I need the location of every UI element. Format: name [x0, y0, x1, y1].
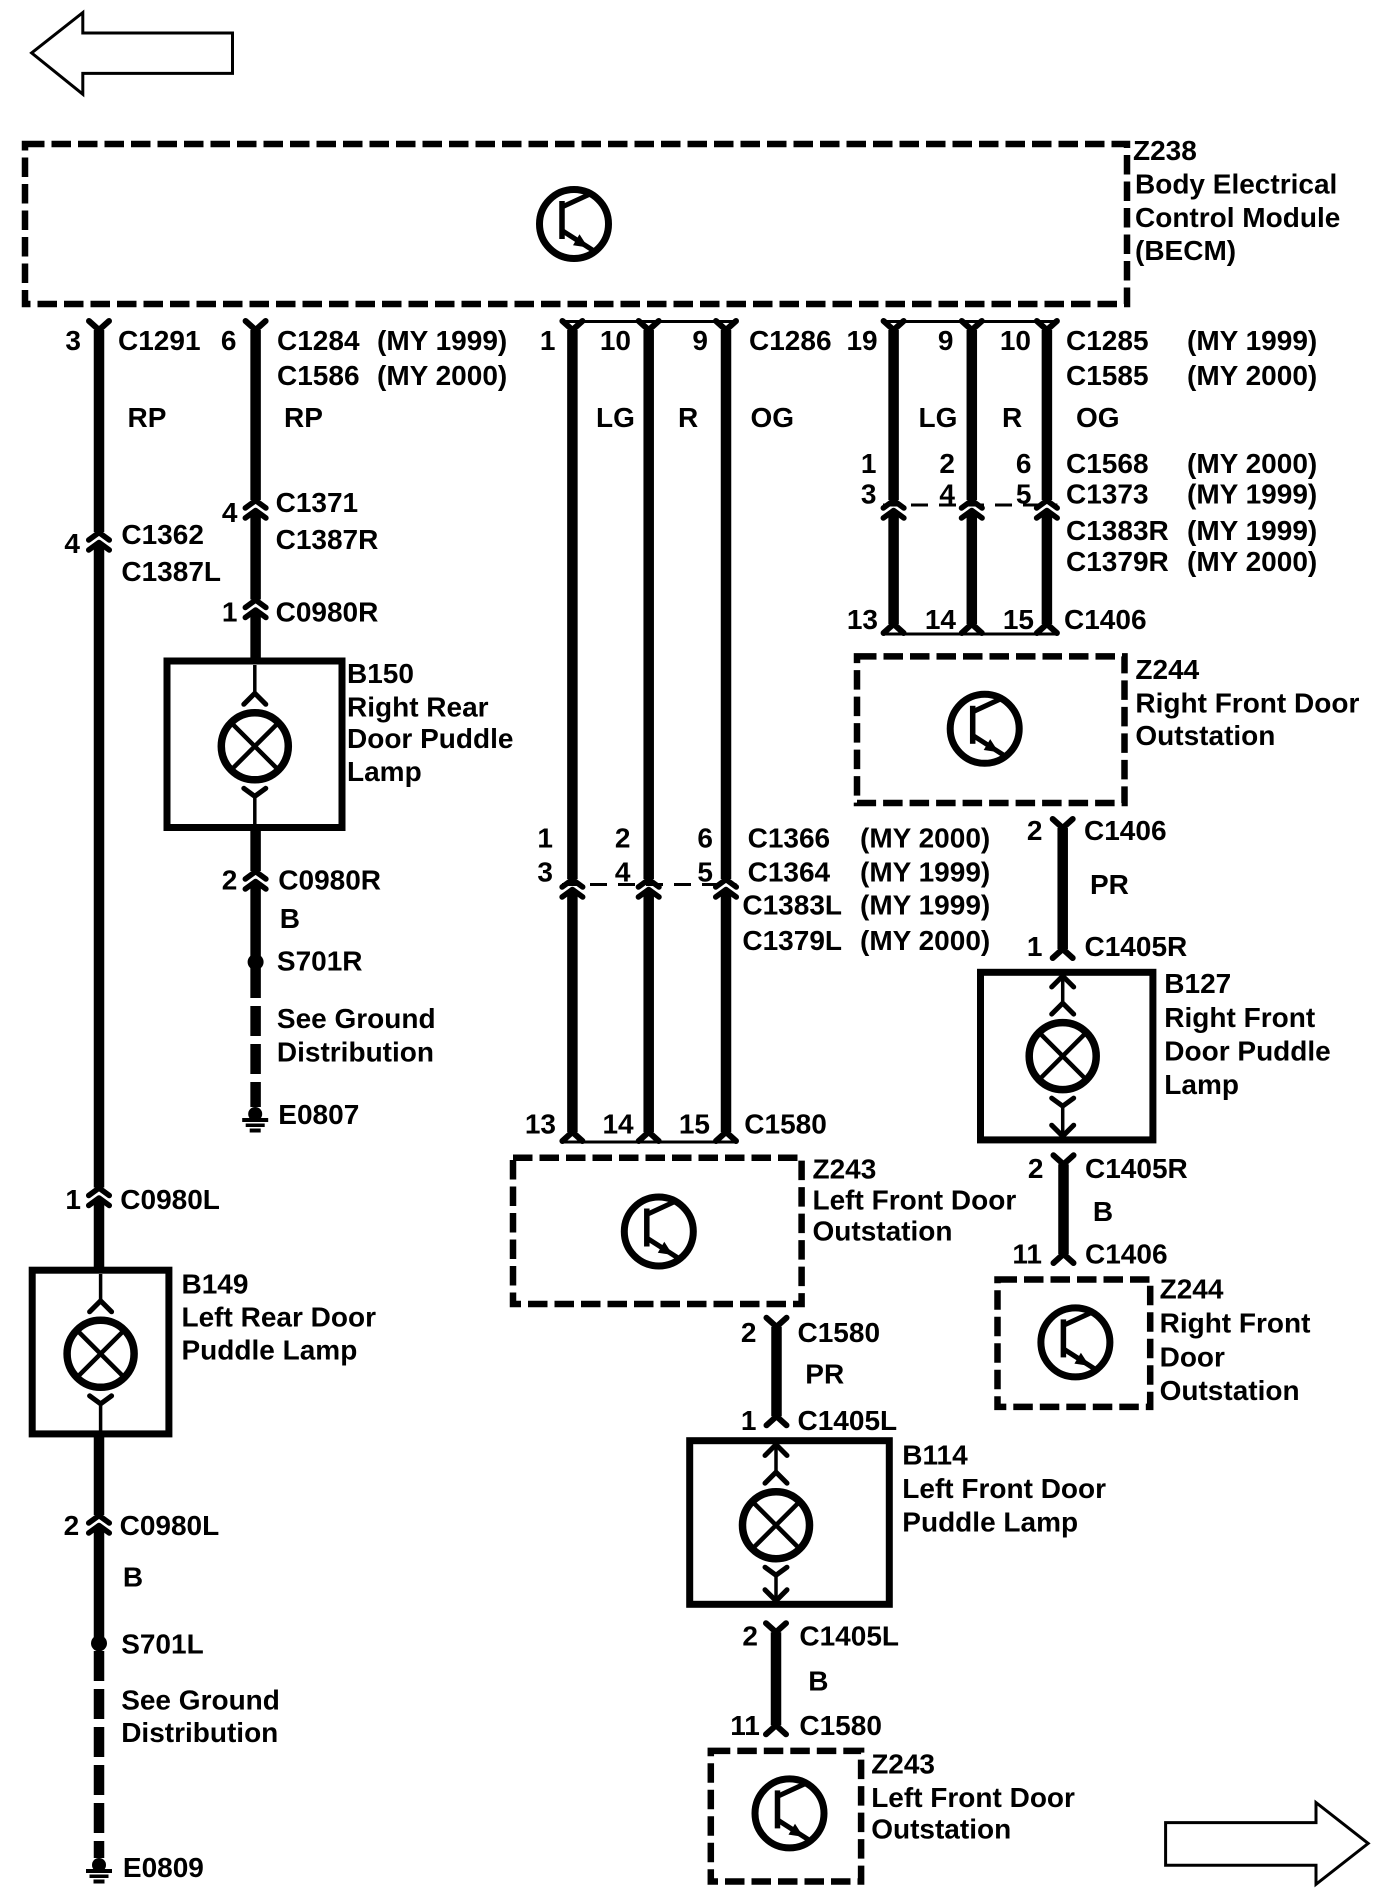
svg-text:E0809: E0809: [123, 1852, 204, 1883]
svg-text:6: 6: [697, 823, 713, 854]
svg-text:C0980L: C0980L: [120, 1510, 220, 1541]
svg-text:C1580: C1580: [798, 1317, 881, 1348]
svg-text:2: 2: [222, 865, 238, 896]
svg-text:19: 19: [846, 325, 877, 356]
svg-text:3: 3: [65, 325, 81, 356]
svg-text:Door Puddle: Door Puddle: [347, 723, 513, 754]
svg-text:2: 2: [1027, 815, 1043, 846]
svg-text:Body Electrical: Body Electrical: [1135, 169, 1337, 200]
svg-text:5: 5: [1016, 479, 1032, 510]
svg-text:OG: OG: [751, 402, 795, 433]
svg-text:Outstation: Outstation: [813, 1216, 953, 1247]
svg-text:2: 2: [939, 448, 955, 479]
svg-text:1: 1: [222, 597, 238, 628]
svg-text:(MY 1999): (MY 1999): [1187, 325, 1317, 356]
svg-text:Right Front: Right Front: [1164, 1002, 1315, 1033]
svg-text:C1387R: C1387R: [276, 524, 379, 555]
svg-text:C1364: C1364: [748, 857, 831, 888]
svg-text:B: B: [123, 1562, 143, 1593]
svg-text:(MY 1999): (MY 1999): [377, 325, 507, 356]
svg-text:C1405R: C1405R: [1085, 931, 1188, 962]
svg-text:B: B: [280, 903, 300, 934]
svg-text:Door: Door: [1160, 1342, 1225, 1373]
svg-text:13: 13: [847, 604, 878, 635]
svg-text:2: 2: [64, 1510, 80, 1541]
svg-text:10: 10: [1000, 325, 1031, 356]
svg-text:C1406: C1406: [1085, 1239, 1168, 1270]
svg-text:2: 2: [742, 1621, 758, 1652]
svg-text:Distribution: Distribution: [277, 1037, 434, 1068]
svg-text:(MY 2000): (MY 2000): [1187, 360, 1317, 391]
svg-text:B114: B114: [902, 1440, 968, 1471]
svg-text:(MY 1999): (MY 1999): [1187, 515, 1317, 546]
svg-text:Z238: Z238: [1133, 135, 1197, 166]
svg-text:S701L: S701L: [121, 1629, 204, 1660]
svg-text:Z243: Z243: [813, 1154, 877, 1185]
svg-text:PR: PR: [1090, 869, 1129, 900]
svg-text:B149: B149: [182, 1269, 249, 1300]
svg-text:6: 6: [1016, 448, 1032, 479]
svg-text:C1387L: C1387L: [121, 556, 221, 587]
svg-text:1: 1: [65, 1184, 81, 1215]
svg-text:C1568: C1568: [1066, 448, 1149, 479]
svg-text:14: 14: [602, 1109, 634, 1140]
svg-text:Door Puddle: Door Puddle: [1164, 1036, 1330, 1067]
svg-text:See Ground: See Ground: [121, 1685, 280, 1716]
svg-text:Left Front Door: Left Front Door: [813, 1185, 1017, 1216]
svg-text:9: 9: [692, 325, 708, 356]
svg-text:10: 10: [600, 325, 631, 356]
svg-text:Right Rear: Right Rear: [347, 691, 489, 722]
svg-text:6: 6: [221, 325, 237, 356]
svg-text:B: B: [808, 1666, 828, 1697]
svg-text:C1366: C1366: [748, 823, 831, 854]
svg-text:OG: OG: [1076, 402, 1120, 433]
svg-text:C1580: C1580: [744, 1109, 827, 1140]
svg-text:C1379R: C1379R: [1066, 546, 1169, 577]
svg-text:C1580: C1580: [799, 1710, 882, 1741]
svg-text:(MY 1999): (MY 1999): [860, 857, 990, 888]
svg-text:Outstation: Outstation: [871, 1814, 1011, 1845]
svg-text:RP: RP: [284, 402, 323, 433]
svg-text:(MY 2000): (MY 2000): [377, 360, 507, 391]
svg-text:1: 1: [537, 823, 553, 854]
svg-text:Puddle Lamp: Puddle Lamp: [902, 1507, 1078, 1538]
svg-text:C1285: C1285: [1066, 325, 1149, 356]
svg-text:Right Front Door: Right Front Door: [1135, 688, 1359, 719]
svg-text:Lamp: Lamp: [1164, 1069, 1239, 1100]
svg-text:Z244: Z244: [1135, 654, 1199, 685]
svg-text:1: 1: [741, 1405, 757, 1436]
svg-text:2: 2: [741, 1317, 757, 1348]
svg-text:(MY 2000): (MY 2000): [1187, 546, 1317, 577]
svg-text:C1405L: C1405L: [798, 1405, 898, 1436]
svg-text:Puddle Lamp: Puddle Lamp: [182, 1335, 358, 1366]
svg-text:RP: RP: [128, 402, 167, 433]
svg-text:9: 9: [938, 325, 954, 356]
svg-text:Left Front Door: Left Front Door: [902, 1473, 1106, 1504]
svg-text:1: 1: [861, 448, 877, 479]
svg-text:C1406: C1406: [1084, 815, 1167, 846]
svg-text:C1286: C1286: [749, 325, 832, 356]
svg-text:Left Rear Door: Left Rear Door: [182, 1302, 377, 1333]
svg-text:14: 14: [925, 604, 957, 635]
svg-text:S701R: S701R: [277, 946, 363, 977]
svg-text:B150: B150: [347, 658, 414, 689]
svg-text:E0807: E0807: [278, 1099, 359, 1130]
svg-text:C0980R: C0980R: [276, 597, 379, 628]
svg-text:Outstation: Outstation: [1135, 720, 1275, 751]
svg-text:C1586: C1586: [277, 360, 360, 391]
svg-text:C1362: C1362: [121, 519, 204, 550]
svg-text:Z244: Z244: [1160, 1274, 1224, 1305]
svg-text:C1383R: C1383R: [1066, 515, 1169, 546]
svg-text:Lamp: Lamp: [347, 756, 422, 787]
svg-text:Control Module: Control Module: [1135, 202, 1340, 233]
svg-text:4: 4: [939, 479, 955, 510]
svg-text:C0980R: C0980R: [278, 865, 381, 896]
svg-text:11: 11: [1012, 1239, 1042, 1270]
svg-text:15: 15: [679, 1109, 710, 1140]
svg-text:2: 2: [1028, 1153, 1044, 1184]
svg-text:C0980L: C0980L: [120, 1184, 220, 1215]
svg-text:See Ground: See Ground: [277, 1003, 436, 1034]
svg-text:C1373: C1373: [1066, 479, 1149, 510]
svg-text:C1284: C1284: [277, 325, 360, 356]
svg-text:C1405R: C1405R: [1085, 1153, 1188, 1184]
svg-text:C1405L: C1405L: [799, 1621, 899, 1652]
svg-text:B127: B127: [1164, 968, 1231, 999]
svg-text:Left Front Door: Left Front Door: [871, 1782, 1075, 1813]
svg-text:15: 15: [1003, 604, 1034, 635]
svg-text:11: 11: [730, 1710, 760, 1741]
svg-text:LG: LG: [596, 402, 635, 433]
svg-text:PR: PR: [805, 1359, 844, 1390]
svg-text:(MY 2000): (MY 2000): [860, 823, 990, 854]
svg-text:Distribution: Distribution: [121, 1717, 278, 1748]
svg-text:13: 13: [525, 1109, 556, 1140]
svg-text:2: 2: [615, 823, 631, 854]
svg-text:(MY 1999): (MY 1999): [860, 890, 990, 921]
svg-text:Right Front: Right Front: [1160, 1308, 1311, 1339]
svg-text:Z243: Z243: [871, 1749, 935, 1780]
svg-text:4: 4: [222, 497, 238, 528]
svg-text:R: R: [678, 402, 698, 433]
svg-text:(MY 2000): (MY 2000): [860, 925, 990, 956]
svg-text:(MY 1999): (MY 1999): [1187, 479, 1317, 510]
svg-text:(BECM): (BECM): [1135, 235, 1236, 266]
svg-text:B: B: [1093, 1196, 1113, 1227]
svg-text:LG: LG: [919, 402, 958, 433]
svg-text:4: 4: [615, 857, 631, 888]
svg-text:Outstation: Outstation: [1160, 1375, 1300, 1406]
svg-text:C1585: C1585: [1066, 360, 1149, 391]
svg-text:(MY 2000): (MY 2000): [1187, 448, 1317, 479]
svg-text:3: 3: [861, 479, 877, 510]
svg-text:C1371: C1371: [276, 487, 359, 518]
svg-text:3: 3: [537, 857, 553, 888]
svg-text:C1291: C1291: [118, 325, 201, 356]
svg-text:1: 1: [1027, 931, 1043, 962]
svg-text:C1379L: C1379L: [742, 925, 842, 956]
svg-text:5: 5: [697, 857, 713, 888]
svg-text:C1383L: C1383L: [742, 890, 842, 921]
svg-text:1: 1: [540, 325, 556, 356]
svg-text:C1406: C1406: [1064, 604, 1147, 635]
svg-text:4: 4: [64, 528, 80, 559]
svg-text:R: R: [1002, 402, 1022, 433]
